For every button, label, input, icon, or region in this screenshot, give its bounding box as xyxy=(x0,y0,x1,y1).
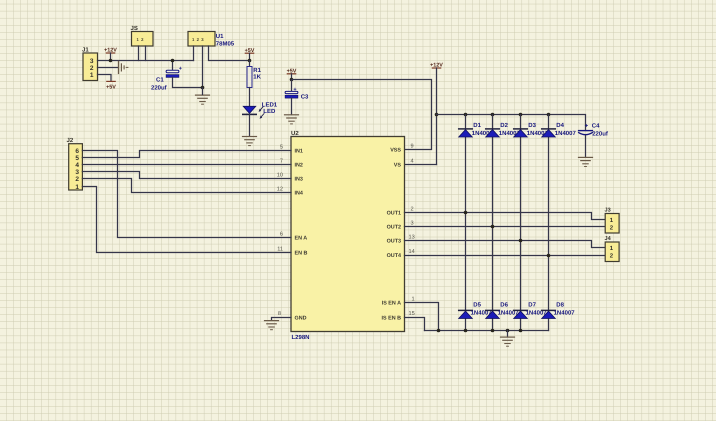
svg-text:C3: C3 xyxy=(301,94,309,101)
svg-text:5: 5 xyxy=(280,145,283,151)
ground at U2 GND xyxy=(265,321,279,330)
wire D3/D7 column xyxy=(520,115,522,331)
svg-text:OUT2: OUT2 xyxy=(387,225,401,231)
svg-text:1N4007: 1N4007 xyxy=(554,310,576,317)
svg-text:4: 4 xyxy=(75,162,79,169)
power port +5V (C3) xyxy=(287,68,297,74)
svg-text:2: 2 xyxy=(75,176,79,183)
wire +5V to U2 VSS (pin 9) xyxy=(292,80,432,150)
svg-text:1: 1 xyxy=(90,72,94,79)
svg-text:VSS: VSS xyxy=(390,148,401,154)
ground at LED1 xyxy=(243,137,257,146)
wire J2.5 to U2 IN1 xyxy=(82,151,291,158)
wire U2 OUT4 (pin 14) to J4.2 xyxy=(405,255,605,257)
connector J1 xyxy=(82,47,98,81)
regulator U1 78M05 xyxy=(188,32,235,48)
svg-text:D6: D6 xyxy=(500,302,508,309)
svg-text:9: 9 xyxy=(411,144,414,150)
capacitor C1 220uf xyxy=(151,61,203,92)
svg-text:1 2: 1 2 xyxy=(137,37,145,42)
svg-text:EN B: EN B xyxy=(295,251,308,257)
node rail D6 xyxy=(491,329,495,333)
wire J2.4 to U2 IN2 xyxy=(82,164,291,166)
diode D6 1N4007 xyxy=(486,302,520,319)
wire U2 IS EN A (pin 1) xyxy=(405,303,439,331)
svg-text:D2: D2 xyxy=(500,122,508,129)
connector J2 xyxy=(67,137,83,191)
node OUT4/D4 xyxy=(547,254,551,258)
svg-text:10: 10 xyxy=(277,173,283,179)
svg-text:LED1: LED1 xyxy=(262,102,278,109)
capacitor C4 220uf xyxy=(579,122,609,157)
svg-text:OUT1: OUT1 xyxy=(387,211,401,217)
diode D1 1N4007 xyxy=(459,122,494,137)
svg-text:2: 2 xyxy=(90,65,94,72)
diode D7 1N4007 xyxy=(514,302,548,319)
svg-text:15: 15 xyxy=(409,311,415,317)
node +12V / diode rail xyxy=(435,113,439,117)
wire bottom diode rail xyxy=(425,330,549,332)
svg-text:3: 3 xyxy=(75,169,79,176)
svg-text:L298N: L298N xyxy=(292,334,310,341)
svg-text:1 2 3: 1 2 3 xyxy=(192,37,204,42)
svg-text:IN1: IN1 xyxy=(295,149,303,155)
svg-text:D7: D7 xyxy=(528,302,536,309)
ground (sideways) at J1.2 xyxy=(119,61,128,73)
power port +12V (U2 VS) xyxy=(430,62,443,68)
wire D1/D5 column xyxy=(465,115,467,331)
svg-text:13: 13 xyxy=(409,235,415,241)
IC U2 L298N xyxy=(291,130,405,341)
diode D5 1N4007 xyxy=(459,302,493,319)
wire +5V bar stub xyxy=(249,53,251,60)
svg-text:EN A: EN A xyxy=(295,236,308,242)
svg-text:GND: GND xyxy=(295,316,307,322)
wire top diode rail xyxy=(437,115,586,131)
connector J3 xyxy=(605,207,620,233)
svg-text:1N4007: 1N4007 xyxy=(555,130,577,137)
node OUT1/D1 xyxy=(464,211,468,215)
node rail D2 xyxy=(491,113,495,117)
node U1 gnd xyxy=(201,86,205,90)
wire J1.3 / +12V rail xyxy=(98,60,194,62)
wire J2.2 to U2 IN4 xyxy=(82,179,291,193)
svg-text:6: 6 xyxy=(280,232,283,238)
wire D2/D6 column xyxy=(492,115,494,331)
wire U2 GND (pin 8) xyxy=(272,318,292,321)
node C3 top xyxy=(290,78,294,82)
wire U2 OUT1 (pin 2) to J3.1 xyxy=(405,213,605,220)
node rail D3 xyxy=(519,113,523,117)
svg-text:3: 3 xyxy=(411,221,414,227)
node rail D4 xyxy=(547,113,551,117)
svg-text:12: 12 xyxy=(277,187,283,193)
svg-text:D4: D4 xyxy=(556,122,564,129)
capacitor C3 xyxy=(285,80,309,115)
wire LED1 to ground xyxy=(249,114,251,136)
wire +12V stub xyxy=(110,53,112,61)
node rail ISENA xyxy=(437,329,441,333)
wire +5V bar stub C3 xyxy=(291,74,293,80)
svg-text:1: 1 xyxy=(75,184,79,191)
svg-text:+: + xyxy=(179,66,182,72)
svg-text:6: 6 xyxy=(75,148,79,155)
node rail D5 xyxy=(464,329,468,333)
wire U1 gnd stub xyxy=(202,88,204,95)
node rail gnd xyxy=(506,329,510,333)
svg-text:1: 1 xyxy=(412,297,415,303)
wire D4/D8 column xyxy=(548,115,550,331)
ground at U1 xyxy=(196,95,210,104)
svg-text:2: 2 xyxy=(411,207,414,213)
wire U1 pin2 (GND) xyxy=(202,46,204,88)
wire J2.1 to U2 EN B xyxy=(82,187,291,253)
svg-text:5: 5 xyxy=(75,155,79,162)
resistor R1 1K xyxy=(247,67,262,88)
ground at C3 xyxy=(285,115,299,124)
svg-text:VS: VS xyxy=(394,163,402,169)
svg-text:U2: U2 xyxy=(291,130,299,137)
svg-text:IS EN A: IS EN A xyxy=(382,301,401,307)
power port +5V (below J1) xyxy=(106,81,116,90)
svg-text:U1: U1 xyxy=(216,33,224,40)
wire U2 OUT3 (pin 13) to J4.1 xyxy=(405,241,605,248)
svg-text:D1: D1 xyxy=(473,122,481,129)
svg-text:J4: J4 xyxy=(605,236,612,242)
svg-text:+: + xyxy=(293,87,296,93)
svg-text:C4: C4 xyxy=(592,122,600,129)
wire J1.1 to +5V port xyxy=(98,75,112,82)
node OUT3/D3 xyxy=(519,239,523,243)
wire JS pin2 xyxy=(145,46,147,61)
wire J2.6 to U2 EN A xyxy=(82,151,291,238)
svg-text:78M05: 78M05 xyxy=(216,41,235,48)
wire U2 OUT2 (pin 3) to J3.2 xyxy=(405,226,605,228)
wire R1 to LED1 xyxy=(249,88,251,107)
svg-text:7: 7 xyxy=(280,159,283,165)
jumper JS xyxy=(131,25,154,46)
node rail D1 xyxy=(464,113,468,117)
svg-text:11: 11 xyxy=(277,247,283,253)
svg-text:4: 4 xyxy=(411,159,414,165)
wire JS pin1 xyxy=(138,46,140,61)
connector J4 xyxy=(605,236,620,262)
power port +12V (J1) xyxy=(104,47,117,53)
ground at bottom rail xyxy=(501,337,515,346)
wire J1.2 to ground xyxy=(98,67,119,69)
svg-text:IS EN B: IS EN B xyxy=(382,316,402,322)
node OUT2/D2 xyxy=(491,225,495,229)
svg-text:14: 14 xyxy=(409,249,415,255)
svg-text:J3: J3 xyxy=(605,207,611,213)
svg-text:220uf: 220uf xyxy=(592,131,609,138)
svg-text:LED: LED xyxy=(263,108,276,115)
wire U1 pin3 (VOUT) to +5V node xyxy=(209,46,250,61)
svg-text:J2: J2 xyxy=(67,137,74,144)
wire J2.3 to U2 IN3 xyxy=(82,172,291,179)
node rail D7 xyxy=(519,329,523,333)
svg-text:+5V: +5V xyxy=(106,84,116,90)
power port +5V (R1) xyxy=(245,48,255,54)
svg-text:8: 8 xyxy=(278,311,281,317)
diode D4 1N4007 xyxy=(542,122,577,137)
svg-text:IN2: IN2 xyxy=(295,163,303,169)
wire U2 VS (pin 4) xyxy=(405,164,437,166)
diode D3 1N4007 xyxy=(514,122,549,137)
diode D2 1N4007 xyxy=(486,122,521,137)
LED LED1 xyxy=(243,102,278,119)
wire rail ground stub xyxy=(507,331,509,337)
svg-text:IN3: IN3 xyxy=(295,177,303,183)
svg-text:D8: D8 xyxy=(556,302,564,309)
svg-text:D5: D5 xyxy=(473,302,481,309)
wire U1 pin1 (VIN) xyxy=(193,46,195,61)
wire U2 IS EN B (pin 15) xyxy=(405,318,425,331)
node C1 top xyxy=(171,59,175,63)
svg-text:JS: JS xyxy=(131,25,138,32)
svg-text:IN4: IN4 xyxy=(295,191,303,197)
node R1 top xyxy=(248,59,252,63)
svg-text:OUT3: OUT3 xyxy=(387,239,401,245)
node +12V / J1.3 xyxy=(109,59,113,63)
wire +5V node to R1 xyxy=(249,61,251,67)
svg-text:+: + xyxy=(585,123,589,129)
svg-text:OUT4: OUT4 xyxy=(387,253,401,259)
svg-text:R1: R1 xyxy=(253,67,261,74)
wire +12V down to VS row xyxy=(436,68,438,165)
svg-text:C1: C1 xyxy=(156,77,164,84)
svg-text:D3: D3 xyxy=(528,122,536,129)
diode D8 1N4007 xyxy=(542,302,576,319)
svg-text:1K: 1K xyxy=(253,73,261,80)
ground at C4 xyxy=(579,157,593,166)
svg-text:220uf: 220uf xyxy=(151,85,168,92)
svg-text:3: 3 xyxy=(90,58,94,65)
